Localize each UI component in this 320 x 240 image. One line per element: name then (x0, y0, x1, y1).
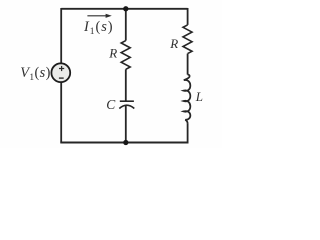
wire middle upper (125, 9, 127, 41)
junction node dot top (123, 6, 128, 11)
resistor R middle branch zigzag (121, 41, 130, 70)
wire left lower (60, 83, 62, 143)
wire bottom (60, 142, 188, 144)
wire left upper (60, 8, 62, 63)
wire right lower (187, 123, 189, 142)
capacitor C bottom curved plate (119, 105, 134, 108)
svg-text:V1(s): V1(s) (20, 65, 51, 83)
svg-text:C: C (106, 97, 116, 112)
current arrow I1 (87, 14, 111, 18)
junction node dot bottom (123, 140, 128, 145)
resistor R right branch zigzag (183, 25, 192, 54)
wire top (61, 8, 187, 10)
wire middle between R and C (125, 69, 127, 101)
wire right between R and L (187, 54, 189, 75)
svg-text:L: L (195, 89, 203, 104)
voltage source minus sign (59, 77, 64, 79)
wire right upper (187, 8, 189, 25)
inductor L coil (184, 74, 191, 123)
svg-text:I1(s): I1(s) (83, 19, 114, 37)
wire middle lower (125, 106, 127, 143)
voltage source V1 circle (51, 63, 70, 82)
capacitor C top plate (120, 100, 134, 102)
voltage source plus sign (59, 66, 64, 78)
svg-text:R: R (108, 46, 117, 61)
svg-text:R: R (169, 36, 178, 51)
